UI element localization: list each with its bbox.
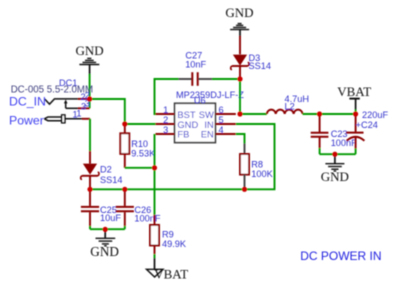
svg-text:100nF: 100nF [134, 213, 160, 223]
svg-text:Power: Power [9, 113, 44, 127]
wire J1 down to DC1 pin3 [89, 99, 91, 108]
svg-text:D2: D2 [100, 165, 112, 175]
svg-text:FB: FB [177, 129, 189, 140]
capacitor C25 [89, 189, 91, 206]
U6 pin 1 BST [156, 113, 175, 115]
wire GND1 to junction J1 [89, 74, 91, 99]
inductor L2 4.7uH [267, 110, 303, 114]
connector P1 Power plug [44, 115, 82, 123]
svg-text:1: 1 [76, 109, 81, 119]
node J3 junction [87, 187, 92, 192]
node J6 junction [152, 165, 157, 170]
resistor R10 [124, 124, 126, 133]
svg-text:2: 2 [163, 115, 168, 125]
capacitor C24 (polarized) [355, 114, 357, 132]
U6 pin 4 EN [215, 133, 235, 135]
Power pin 1 lead [82, 118, 90, 120]
svg-text:GND: GND [90, 244, 119, 259]
node J4 junction [122, 187, 127, 192]
wire C25/C26 bottoms [90, 228, 125, 230]
wire EN to R8 [236, 134, 245, 144]
node J8 junction [237, 111, 242, 116]
ground GND1 (above DC1) [79, 58, 99, 74]
svg-text:VBAT: VBAT [154, 266, 188, 281]
svg-text:MP2359DJ-LF-Z: MP2359DJ-LF-Z [176, 90, 244, 100]
svg-text:VBAT: VBAT [337, 84, 371, 99]
svg-text:SS14: SS14 [100, 175, 122, 185]
svg-text:1: 1 [163, 105, 168, 115]
svg-text:6: 6 [219, 105, 224, 115]
svg-text:5: 5 [219, 115, 224, 125]
capacitor C26 [124, 189, 126, 206]
wire FB column [154, 134, 156, 215]
ground GND4 (below C23/C24) [325, 154, 344, 171]
svg-text:L2: L2 [285, 102, 295, 112]
connector DC1 barrel jack [45, 99, 79, 108]
svg-text:49.9K: 49.9K [162, 239, 187, 249]
wire C23/C24 bottoms [320, 153, 356, 155]
wire D3 to SW node [239, 79, 241, 114]
wire R9 to VBAT flag [154, 254, 156, 258]
power flag VBAT (bottom) [154, 258, 156, 269]
node J2 junction [122, 121, 127, 126]
U6 pin 6 SW [215, 113, 235, 115]
wire C27 to D3 column [212, 78, 240, 80]
svg-text:SS14: SS14 [249, 61, 271, 71]
node J12 junction [242, 187, 247, 192]
wire L2 to C23 [303, 113, 320, 115]
DC1 pin 3 lead [78, 107, 90, 109]
diode D3 SS14 [239, 36, 241, 54]
diode D2 SS14 [89, 151, 91, 164]
wire J1 to U6 pin2 (GND net top run) [90, 99, 125, 124]
ground GND2 (above D3) [230, 24, 249, 37]
node J5 junction [103, 227, 108, 232]
wire J9 to J10 [320, 113, 356, 115]
svg-text:GND: GND [76, 43, 104, 58]
U6 pin 3 FB [156, 133, 175, 135]
svg-text:EN: EN [201, 129, 214, 140]
svg-text:100nF: 100nF [331, 138, 357, 148]
svg-text:9.53K: 9.53K [131, 149, 156, 159]
svg-text:+C24: +C24 [356, 120, 378, 130]
wire DC1 pin1 down to D2 [89, 119, 91, 151]
svg-text:R8: R8 [251, 160, 263, 170]
node J9 junction [317, 111, 322, 116]
capacitor C23 [319, 114, 321, 132]
DC1 pin 2 lead [78, 98, 90, 100]
svg-text:10uF: 10uF [100, 213, 121, 223]
wire SW to L2 [240, 113, 267, 115]
svg-text:10nF: 10nF [185, 60, 206, 70]
wire R10 bottom to FB column [125, 167, 155, 169]
svg-text:GND: GND [225, 5, 253, 20]
power flag VBAT (top right) [355, 110, 357, 115]
svg-text:DC_IN: DC_IN [9, 94, 46, 108]
svg-text:3: 3 [163, 125, 168, 135]
ground GND3 (below C25/C26) [96, 229, 116, 246]
svg-text:4: 4 [219, 125, 224, 135]
svg-text:GND: GND [321, 169, 349, 184]
capacitor C27 [179, 78, 192, 80]
wire J2 to pin2 [125, 123, 156, 125]
U6 pin 5 IN [215, 123, 235, 125]
svg-text:U6: U6 [194, 95, 206, 105]
IC U6 MP2359DJ-LF-Z body [175, 103, 216, 142]
U6 pin 2 GND [156, 123, 175, 125]
node J1 junction [87, 96, 92, 101]
svg-text:DC POWER IN: DC POWER IN [300, 249, 381, 263]
node J10 junction [353, 111, 358, 116]
svg-text:220uF: 220uF [362, 110, 388, 120]
resistor R9 [154, 215, 156, 225]
junction dots layer [87, 76, 358, 232]
node J7 junction [237, 76, 242, 81]
wire IN net bottom run [90, 124, 275, 189]
svg-text:100K: 100K [251, 169, 273, 179]
wire BST to C27 [155, 79, 179, 114]
resistor R8 [244, 144, 246, 155]
node J11 junction [332, 152, 337, 157]
